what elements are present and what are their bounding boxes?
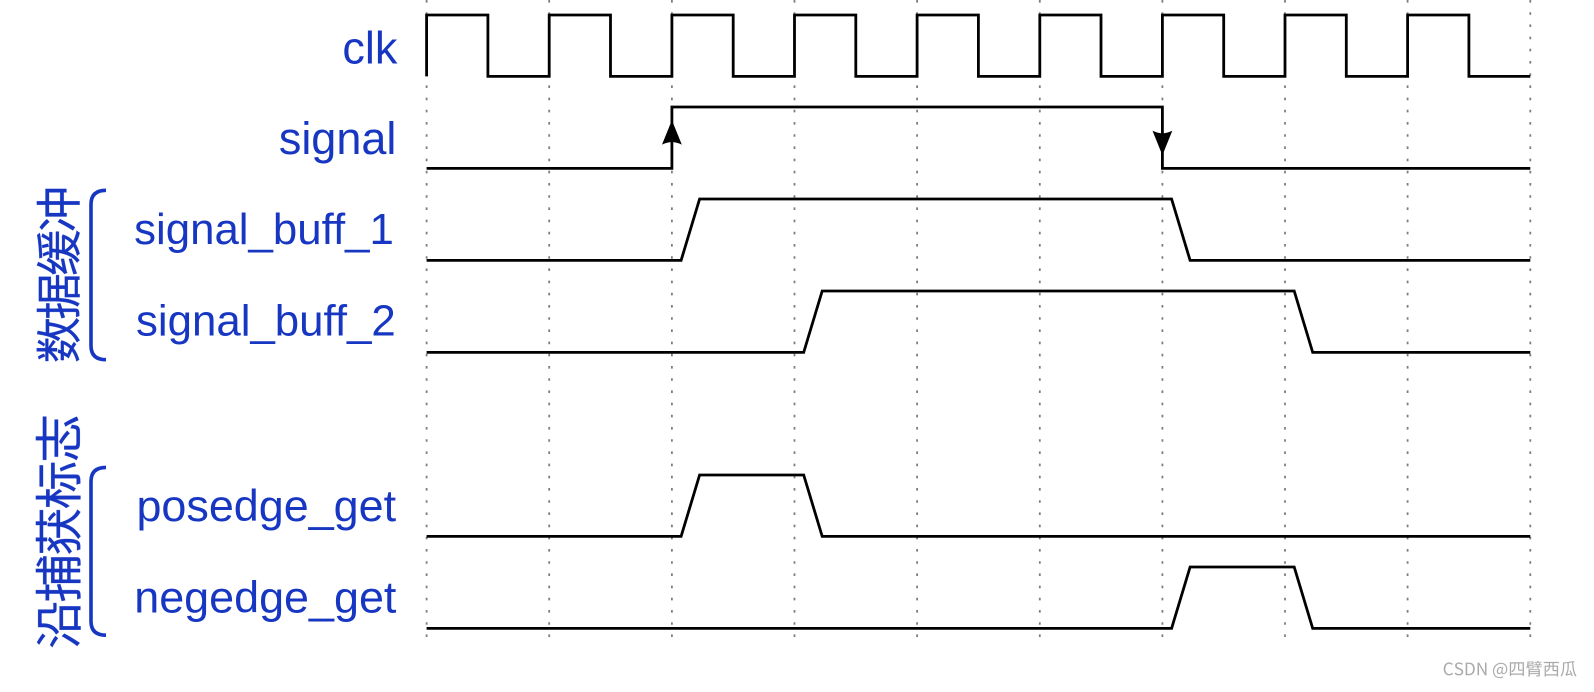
grid line 10 (clock edge t9) bbox=[1529, 0, 1531, 640]
grid line 9 (clock edge t8) bbox=[1407, 0, 1409, 640]
svg-text:signal_buff_2: signal_buff_2 bbox=[136, 297, 396, 346]
negedge_get waveform bbox=[427, 567, 1531, 628]
posedge_get waveform bbox=[427, 475, 1531, 536]
svg-text:signal_buff_1: signal_buff_1 bbox=[134, 205, 394, 254]
bracket for data-buffer group bbox=[91, 190, 106, 359]
grid line 2 (clock edge t1) bbox=[548, 0, 550, 640]
grid line 8 (clock edge t7) bbox=[1284, 0, 1286, 640]
falling-edge arrow on signal bbox=[1153, 131, 1173, 155]
rising-edge arrow on signal bbox=[662, 120, 682, 144]
svg-text:clk: clk bbox=[342, 23, 397, 74]
grid line 5 (clock edge t4) bbox=[916, 0, 918, 640]
svg-text:posedge_get: posedge_get bbox=[136, 480, 396, 531]
watermark CSDN @四臂西瓜 bbox=[1444, 661, 1577, 678]
group label "数据缓冲" (rotated) bbox=[37, 189, 80, 362]
bracket for edge-capture group bbox=[91, 467, 106, 635]
grid line 4 (clock edge t3) bbox=[794, 0, 796, 640]
svg-text:negedge_get: negedge_get bbox=[134, 572, 397, 623]
grid line 3 (clock edge t2) bbox=[671, 0, 673, 640]
grid line 7 (clock edge t6) bbox=[1161, 0, 1163, 640]
grid line 1 (clock edge t0) bbox=[426, 0, 428, 640]
signal_buff_2 waveform bbox=[427, 291, 1531, 352]
grid line 6 (clock edge t5) bbox=[1039, 0, 1041, 640]
group label "沿捕获标志" (rotated) bbox=[36, 417, 81, 648]
signal_buff_1 waveform bbox=[427, 199, 1531, 260]
svg-text:signal: signal bbox=[279, 113, 397, 164]
clk waveform bbox=[427, 15, 1531, 76]
signal waveform bbox=[427, 107, 1531, 168]
